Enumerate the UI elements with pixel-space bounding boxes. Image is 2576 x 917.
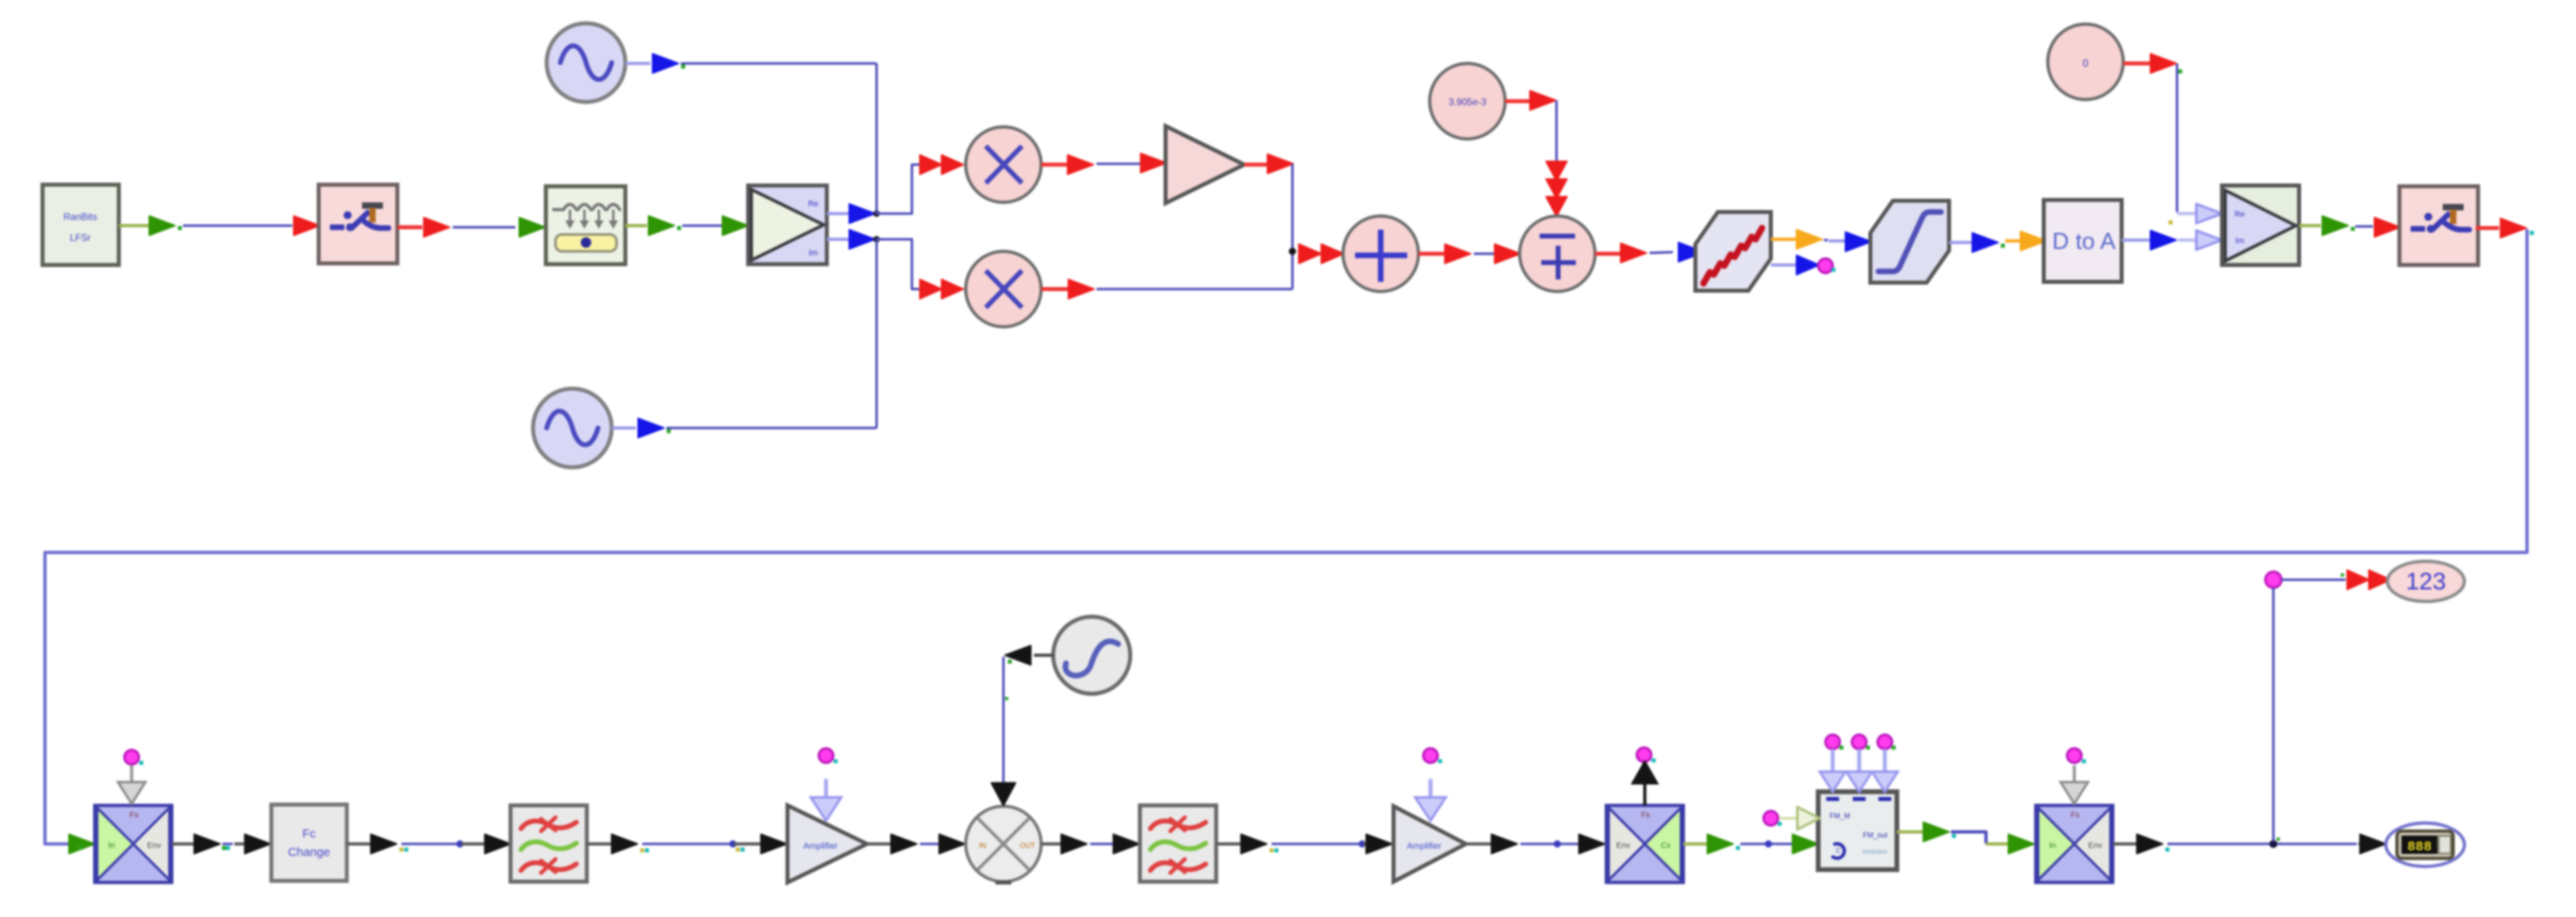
svg-text:Amplifier: Amplifier xyxy=(804,842,838,851)
svg-text:Modulator: Modulator xyxy=(1862,850,1888,855)
svg-text:Fs: Fs xyxy=(1641,811,1650,820)
svg-text:3.905e-3: 3.905e-3 xyxy=(1448,96,1487,108)
svg-text:Fs: Fs xyxy=(129,811,138,820)
svg-text:Fs: Fs xyxy=(2070,811,2079,820)
svg-text:Env: Env xyxy=(1616,842,1630,850)
svg-text:Im: Im xyxy=(808,249,817,258)
svg-text:Fc: Fc xyxy=(303,827,316,841)
svg-text:D to A: D to A xyxy=(2053,229,2117,255)
svg-text:RanBits: RanBits xyxy=(63,211,97,222)
svg-text:In: In xyxy=(2049,842,2056,850)
svg-text:Env: Env xyxy=(2088,842,2102,850)
svg-text:IN: IN xyxy=(979,842,987,850)
svg-text:Re: Re xyxy=(2235,210,2245,219)
svg-text:FM_M: FM_M xyxy=(1829,812,1850,820)
svg-text:In: In xyxy=(108,842,115,850)
svg-text:888: 888 xyxy=(2407,840,2432,855)
svg-text:Amplifier: Amplifier xyxy=(1407,842,1442,851)
svg-text:0: 0 xyxy=(2082,57,2088,69)
svg-text:LFSr: LFSr xyxy=(70,232,91,243)
svg-text:123: 123 xyxy=(2406,569,2446,595)
svg-text:Re: Re xyxy=(808,200,819,209)
svg-text:Im: Im xyxy=(2235,237,2244,246)
svg-text:Env: Env xyxy=(147,842,161,850)
svg-text:Change: Change xyxy=(288,846,331,859)
svg-text:C: C xyxy=(1836,847,1841,854)
svg-text:Cx: Cx xyxy=(1661,842,1671,850)
svg-text:OUT: OUT xyxy=(1020,842,1036,850)
svg-text:FM_out: FM_out xyxy=(1863,831,1888,839)
